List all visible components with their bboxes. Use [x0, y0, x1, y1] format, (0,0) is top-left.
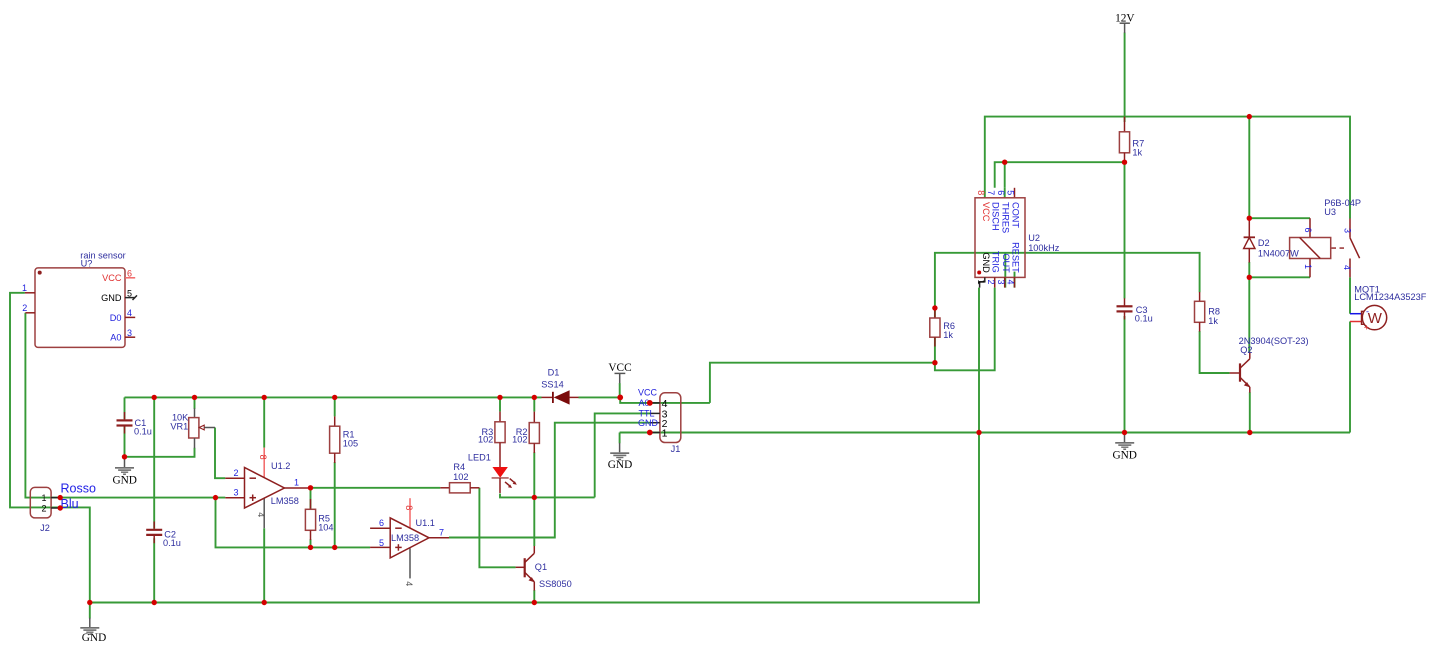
pin 4 RESET stub — [1014, 277, 1016, 287]
svg-text:VCC: VCC — [638, 388, 658, 398]
svg-text:1: 1 — [1303, 264, 1313, 269]
svg-text:0.1u: 0.1u — [1135, 314, 1153, 324]
pin 5 GND stub — [125, 297, 135, 299]
svg-text:U3: U3 — [1324, 207, 1336, 217]
wire R5 top — [310, 488, 312, 509]
junction U1.2 pin4 rail — [262, 600, 267, 605]
svg-text:W: W — [1368, 310, 1383, 327]
junction D2 cathode coil — [1247, 216, 1252, 221]
svg-text:THRES: THRES — [1001, 202, 1011, 233]
wire Rosso net: rain sensor pin2 to J2 pin1 to U1.2 pin3 — [25, 313, 225, 498]
wire U1.2 pin8 to rail — [263, 397, 265, 447]
svg-text:D2: D2 — [1258, 238, 1270, 248]
coil box — [1290, 238, 1331, 259]
svg-text:GND: GND — [608, 459, 632, 471]
svg-text:102: 102 — [453, 472, 468, 482]
potentiometer VR1 10K — [170, 408, 215, 448]
op-amp U1.1 LM358 — [370, 498, 449, 586]
svg-text:6: 6 — [996, 190, 1006, 195]
pin 4 D0 stub — [125, 316, 135, 318]
svg-text:3: 3 — [1343, 228, 1353, 233]
wire R7 bottom to C3 top — [1124, 162, 1126, 298]
junction U1.2 pin3 — [213, 495, 218, 500]
wire OUT pin3 up to RESET rail — [1004, 253, 1006, 288]
svg-text:2: 2 — [233, 468, 238, 478]
wire C2 vertical top — [153, 397, 155, 528]
wire U2 pin8 to 12V rail to relay pin3 — [985, 117, 1350, 219]
capacitor C3 0.1u — [1117, 298, 1153, 323]
svg-text:1: 1 — [976, 280, 986, 285]
pin 4 stub — [409, 548, 411, 578]
wire R3 top — [499, 397, 501, 411]
pin 7 stub — [429, 537, 449, 539]
svg-text:2: 2 — [41, 503, 46, 513]
dashed actuator line — [1332, 247, 1347, 249]
ground symbol near J1 VCC — [608, 443, 632, 471]
wire A0 riser to R6 bottom — [710, 363, 935, 403]
diode D2 1N4007W — [1244, 218, 1299, 262]
resistor R7 1k — [1119, 117, 1144, 163]
pin 1 stub — [25, 292, 35, 294]
svg-text:1: 1 — [22, 283, 27, 293]
svg-text:J1: J1 — [671, 444, 681, 454]
svg-text:8: 8 — [258, 455, 268, 460]
svg-text:2: 2 — [22, 303, 27, 313]
wire J1 GND drop — [619, 433, 621, 444]
junction J1 pin1 — [647, 430, 653, 436]
junction J1 pin4 — [647, 400, 653, 406]
junction Q1 emitter rail — [532, 600, 537, 605]
junction GND rail C3 — [1122, 430, 1127, 435]
junction top rail C2 — [152, 395, 157, 400]
wiper arrow — [199, 425, 204, 430]
wire GND stub bottom-left — [89, 603, 91, 619]
ground symbol bottom-left — [80, 618, 106, 644]
svg-text:CONT: CONT — [1011, 202, 1021, 228]
wire R8 bottom to Q2 base — [1200, 331, 1230, 373]
wire R2 bottom to Q1 collector — [533, 452, 535, 546]
LED arrows — [510, 479, 515, 483]
junction top rail VR1 — [192, 395, 197, 400]
J1 pin1 stub — [650, 432, 660, 434]
wire D1 anode to VCC junction — [579, 396, 621, 398]
svg-text:GND: GND — [1112, 449, 1136, 461]
svg-text:1k: 1k — [1208, 316, 1218, 326]
coil pin 6 stub — [1309, 218, 1311, 237]
resistor R6 1k — [930, 308, 955, 347]
svg-text:Blu: Blu — [61, 497, 79, 511]
junction R5 bottom — [308, 545, 313, 550]
svg-text:Rosso: Rosso — [61, 482, 96, 496]
junction GND rail Q2 emitter — [1247, 430, 1252, 435]
svg-text:3: 3 — [233, 488, 238, 498]
switch pin 4 — [1349, 259, 1351, 278]
svg-text:7: 7 — [986, 190, 996, 195]
svg-text:4: 4 — [127, 308, 132, 318]
junction U1.2 output — [308, 485, 313, 490]
svg-text:105: 105 — [343, 438, 358, 448]
diode D1 SS14 — [541, 368, 578, 404]
ground symbol at C1 — [112, 458, 136, 486]
op-amp U1.2 LM358 — [225, 448, 310, 529]
pin 3 OUT stub — [1004, 277, 1006, 287]
svg-text:102: 102 — [512, 435, 527, 445]
pin 2 stub — [225, 477, 244, 479]
svg-text:GND: GND — [112, 474, 136, 486]
pin 6 stub — [370, 527, 390, 529]
junction VCC at J1 — [617, 395, 623, 401]
junction R7 bottom — [1122, 160, 1127, 165]
timer U2 100kHz — [975, 188, 1060, 288]
pin 1 marker dot — [38, 271, 42, 275]
pin 1 marker dot — [977, 271, 981, 275]
svg-text:8: 8 — [404, 505, 414, 510]
junction R6 bottom A0 — [932, 360, 937, 365]
wire J1 pin1 GND rail to motor column — [620, 432, 1350, 434]
svg-text:4: 4 — [404, 581, 414, 586]
wire C3 bottom to GND rail — [1124, 316, 1126, 433]
wire DISCH THRES to R7 bottom — [995, 162, 1125, 188]
svg-text:8: 8 — [976, 190, 986, 195]
wire motor plus down to GND rail — [1349, 322, 1351, 433]
wire U1.1 pin7 to J1 pin2 net — [449, 423, 650, 538]
svg-text:6: 6 — [379, 518, 384, 528]
svg-text:4: 4 — [1342, 265, 1352, 270]
svg-text:1N4007W: 1N4007W — [1258, 248, 1299, 258]
junction C2 bottom — [152, 600, 157, 605]
pin 5 stub — [370, 546, 390, 548]
resistor R8 1k — [1195, 292, 1221, 332]
wire Q2 emitter down — [1249, 392, 1251, 432]
junction 12V rail D2 — [1247, 114, 1252, 119]
resistor R2 102 — [512, 412, 539, 453]
svg-text:+: + — [1364, 323, 1369, 333]
svg-text:D0: D0 — [110, 313, 122, 323]
svg-text:OUT: OUT — [1001, 253, 1011, 273]
wire VCC symbol to junction — [619, 383, 621, 397]
svg-text:3: 3 — [127, 328, 132, 338]
wire LED1 cathode to TTL node — [500, 494, 595, 498]
switch pin 3 — [1349, 219, 1351, 238]
svg-text:4: 4 — [1006, 280, 1016, 285]
J2 pin2 stub — [51, 507, 60, 509]
svg-text:5: 5 — [379, 538, 384, 548]
resistor R3 102 — [478, 412, 505, 468]
svg-text:0.1u: 0.1u — [134, 426, 152, 436]
svg-text:U2: U2 — [1028, 233, 1040, 243]
svg-text:VCC: VCC — [981, 202, 991, 222]
resistor R4 102 — [440, 462, 479, 493]
svg-text:RESET: RESET — [1011, 242, 1021, 273]
svg-text:100kHz: 100kHz — [1028, 243, 1060, 253]
junction J2 pin1 — [58, 495, 63, 500]
junction R1 bottom — [332, 545, 337, 550]
wire R1 bottom crossing to pin5 wire — [334, 462, 336, 547]
svg-text:U1.1: U1.1 — [416, 518, 435, 528]
wire relay pin4 to motor minus — [1349, 277, 1351, 313]
resistor R1 105 — [330, 416, 359, 463]
junction C1 GND — [122, 454, 127, 459]
pin 3 A0 stub — [125, 336, 135, 338]
wire R2 top — [533, 397, 535, 411]
svg-text:GND: GND — [638, 418, 659, 428]
svg-text:LCM1234A3523F: LCM1234A3523F — [1354, 292, 1426, 302]
transistor Q1 SS8050 — [516, 546, 572, 591]
junction THRES — [1002, 160, 1007, 165]
pin 1 stub — [284, 487, 310, 489]
svg-text:6: 6 — [1303, 228, 1313, 233]
relay U3 P6B-04P — [1290, 198, 1361, 277]
wire D2 junction to relay coil pin6 — [1249, 217, 1310, 219]
connector J2 — [30, 482, 96, 533]
junction GND rail U2 — [976, 430, 981, 435]
svg-text:TRIG: TRIG — [991, 251, 1001, 273]
svg-text:-: - — [1366, 307, 1369, 317]
svg-text:1k: 1k — [943, 330, 953, 340]
resistor R5 104 — [305, 499, 333, 540]
wire bottom-left GND rail up to U2 pin1 — [90, 288, 979, 603]
svg-text:SS14: SS14 — [541, 380, 563, 390]
pin 2 TRIG stub — [994, 277, 996, 287]
pin 8 stub — [409, 498, 411, 527]
capacitor C1 0.1u — [117, 412, 152, 436]
transistor Q2 2N3904 — [1230, 336, 1309, 393]
VCC power symbol — [608, 362, 631, 384]
J1 pin2 stub — [650, 422, 660, 424]
switch blade — [1350, 238, 1360, 258]
wire Blu net: rain sensor pin1 to J2 pin2 to bottom-left GND rail — [10, 293, 90, 603]
svg-text:VCC: VCC — [608, 362, 631, 374]
svg-text:2: 2 — [986, 280, 996, 285]
svg-text:GND: GND — [101, 293, 122, 303]
wire R4 right to Q1 base — [479, 488, 515, 568]
J1 pin4 stub — [650, 402, 660, 404]
wire R6 top to RESET rail — [935, 253, 1200, 318]
svg-text:A0: A0 — [110, 333, 121, 343]
ground symbol at C3 — [1112, 434, 1136, 461]
pin 8 stub — [263, 448, 265, 478]
svg-text:R4: R4 — [453, 462, 465, 472]
svg-text:1: 1 — [294, 478, 299, 488]
capacitor C2 0.1u — [146, 522, 181, 548]
coil pin 1 stub — [1309, 259, 1311, 278]
svg-text:Q2: Q2 — [1240, 345, 1252, 355]
svg-text:5: 5 — [127, 288, 132, 298]
svg-text:D1: D1 — [548, 368, 560, 378]
pin 1 GND bent stub — [980, 277, 985, 287]
svg-text:102: 102 — [478, 435, 493, 445]
svg-text:7: 7 — [439, 528, 444, 538]
wire C1 bottom to GND and VR1 bottom — [125, 427, 195, 457]
J2 pin1 stub — [51, 497, 60, 499]
wire R5 bottom — [310, 539, 312, 547]
motor MQT1 — [1350, 285, 1427, 333]
wire TTL: J1 pin3 to LED node — [595, 413, 650, 497]
svg-text:SS8050: SS8050 — [539, 579, 572, 589]
wire VCC junction through J1 pin4 to A0 riser — [620, 397, 710, 403]
svg-text:J2: J2 — [40, 523, 50, 533]
wire R6 bottom to TRIG — [935, 288, 995, 371]
rain sensor module U? — [22, 251, 137, 348]
wire R1 top — [334, 397, 336, 416]
connector J1 — [638, 388, 681, 455]
svg-text:1k: 1k — [1132, 147, 1142, 157]
wire 12V rail to D2 cathode — [1248, 117, 1250, 219]
wire U1.2 pin4 to bottom rail — [263, 528, 265, 602]
junction top rail R3 — [497, 395, 502, 400]
junction top rail R2 — [532, 395, 537, 400]
pin 3 stub — [225, 497, 244, 499]
wire U1.2 output to R4 — [311, 487, 441, 489]
svg-text:LED1: LED1 — [468, 453, 491, 463]
wire pin6 THRES stub — [1004, 188, 1006, 198]
wire Q2 collector up to D2 anode junction — [1248, 277, 1250, 352]
J1 pin3 stub — [650, 412, 660, 414]
wire top VCC rail left of D1 — [125, 396, 542, 398]
pin 6 VCC stub — [125, 277, 135, 279]
svg-text:5: 5 — [1006, 190, 1016, 195]
svg-text:U?: U? — [81, 258, 93, 268]
wire VR1 wiper to U1.2 pin2 — [215, 428, 225, 479]
svg-text:VCC: VCC — [102, 273, 122, 283]
svg-text:VR1: VR1 — [170, 421, 188, 431]
svg-text:Q1: Q1 — [535, 562, 547, 572]
svg-text:GND: GND — [82, 632, 106, 644]
wire C2 bottom — [153, 538, 155, 602]
junction bottom rail at GND — [87, 600, 92, 605]
svg-text:DISCH: DISCH — [991, 202, 1001, 231]
wire 12V symbol down to R7 — [1124, 33, 1126, 123]
wire branch to U1.1 pin5 — [216, 498, 371, 548]
svg-text:LM358: LM358 — [271, 496, 299, 506]
junction top rail R1 — [332, 395, 337, 400]
junction R6 top — [932, 305, 937, 310]
wire D2 anode to coil pin1 — [1249, 262, 1310, 277]
wire RESET pin4 snippet — [1014, 272, 1016, 288]
wire C1 top — [124, 397, 126, 419]
svg-text:GND: GND — [981, 252, 991, 273]
wire Q1 emitter to bottom rail — [533, 590, 535, 603]
junction top rail U1.2 pin8 — [262, 395, 267, 400]
svg-text:0.1u: 0.1u — [163, 538, 181, 548]
svg-text:4: 4 — [256, 512, 266, 517]
svg-text:104: 104 — [318, 522, 333, 532]
junction J2 pin2 — [58, 505, 63, 510]
svg-text:1: 1 — [41, 493, 46, 503]
wire THRES drop — [1004, 162, 1006, 188]
junction D2 anode coil — [1247, 275, 1252, 280]
pin 2 stub — [25, 312, 35, 314]
pin 5 CONT stub — [1014, 188, 1016, 198]
pin 4 stub — [263, 498, 265, 528]
svg-text:1: 1 — [662, 428, 668, 440]
junction LED R2 TTL node — [532, 495, 537, 500]
12V power symbol — [1115, 13, 1135, 33]
LED1 — [468, 453, 517, 493]
svg-text:LM358: LM358 — [391, 533, 419, 543]
wire VR1 top — [194, 397, 196, 409]
svg-text:6: 6 — [127, 269, 132, 279]
svg-text:U1.2: U1.2 — [271, 461, 290, 471]
svg-text:3: 3 — [996, 280, 1006, 285]
